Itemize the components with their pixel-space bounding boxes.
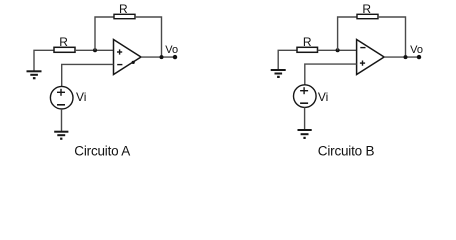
wire: ground stub to input resistor (net at + input) xyxy=(34,50,54,71)
node: junction at - input xyxy=(336,48,340,52)
wire: source to ground xyxy=(61,109,63,132)
wire: op-amp output to Vo terminal xyxy=(141,56,175,58)
svg-text:R: R xyxy=(59,35,68,49)
svg-text:Vo: Vo xyxy=(165,44,178,56)
op-amp U1 minus sign xyxy=(117,64,122,66)
op-amp U1 xyxy=(114,40,142,75)
svg-text:Vi: Vi xyxy=(76,90,86,104)
source V2 (Vi) xyxy=(294,85,317,108)
wire: source to ground xyxy=(304,107,306,130)
terminal Vo xyxy=(417,55,421,59)
svg-text:Circuito B: Circuito B xyxy=(318,144,375,159)
wire: feedback up from junction xyxy=(95,17,114,50)
op-amp U2 minus sign xyxy=(360,47,365,49)
resistor R1 (input, circuit A) xyxy=(54,47,75,52)
svg-text:R: R xyxy=(119,2,128,16)
source V2 minus sign xyxy=(300,102,308,104)
wire: ground stub to input resistor (net at - input) xyxy=(278,50,297,70)
wire: R1 to op-amp + input xyxy=(75,49,114,51)
svg-text:Vi: Vi xyxy=(318,90,328,104)
wire: op-amp output to Vo terminal xyxy=(384,56,419,58)
wire: feedback down to output xyxy=(135,17,162,57)
wire: feedback down to output xyxy=(378,17,406,57)
ground GND1 xyxy=(27,71,42,78)
resistor R3 (input, circuit B) xyxy=(297,47,318,52)
ground GND3 xyxy=(271,70,286,77)
node: output junction xyxy=(160,55,164,59)
source V2 plus sign xyxy=(300,87,308,94)
svg-text:R: R xyxy=(303,35,312,49)
source V1 (Vi) xyxy=(50,86,73,109)
resistor R4 (feedback, circuit B) xyxy=(357,14,378,18)
wire: feedback up from junction xyxy=(338,17,357,50)
node: junction at + input xyxy=(93,48,97,52)
wire: Vi to op-amp + input xyxy=(305,64,357,85)
source V1 plus sign xyxy=(57,89,65,96)
node: output junction xyxy=(404,55,408,59)
op-amp U1 plus sign xyxy=(117,49,122,54)
wire: Vi to op-amp - input xyxy=(62,64,114,86)
terminal Vo xyxy=(173,55,177,59)
op-amp U2 xyxy=(357,40,385,75)
svg-text:Vo: Vo xyxy=(410,44,423,56)
ground GND4 xyxy=(298,130,312,138)
svg-text:Circuito A: Circuito A xyxy=(74,144,130,159)
ground GND2 xyxy=(54,132,68,139)
wire: R3 to op-amp - input xyxy=(318,49,357,51)
resistor R2 (feedback, circuit A) xyxy=(114,14,135,18)
svg-text:R: R xyxy=(362,2,371,16)
mark on U1 lower edge xyxy=(132,61,135,64)
op-amp U2 plus sign xyxy=(360,61,365,66)
source V1 minus sign xyxy=(57,104,65,106)
